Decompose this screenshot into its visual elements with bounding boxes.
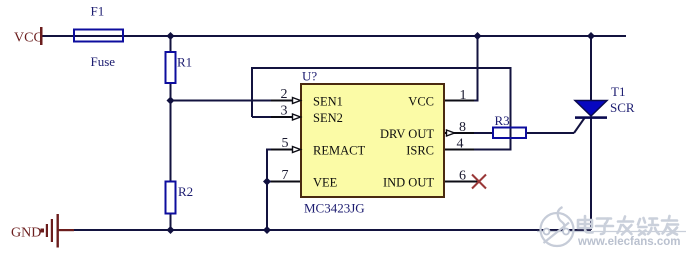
svg-text:8: 8: [459, 120, 466, 135]
svg-text:ISRC: ISRC: [406, 144, 434, 158]
svg-text:SEN1: SEN1: [313, 95, 343, 109]
svg-text:VCC: VCC: [14, 31, 43, 46]
svg-text:Fuse: Fuse: [91, 54, 116, 69]
svg-text:SCR: SCR: [610, 100, 635, 115]
svg-text:F1: F1: [91, 4, 105, 19]
svg-text:3: 3: [281, 104, 288, 119]
svg-text:6: 6: [459, 169, 466, 184]
svg-text:R2: R2: [178, 184, 193, 199]
svg-text:4: 4: [457, 137, 464, 152]
svg-text:SEN2: SEN2: [313, 111, 343, 125]
svg-text:T1: T1: [611, 84, 625, 99]
svg-text:IND OUT: IND OUT: [383, 176, 434, 190]
svg-text:www.elecfans.com: www.elecfans.com: [577, 236, 680, 248]
svg-text:1: 1: [460, 88, 467, 103]
svg-text:MC3423JG: MC3423JG: [304, 201, 365, 216]
svg-text:REMACT: REMACT: [313, 144, 365, 158]
svg-text:7: 7: [282, 168, 289, 183]
svg-text:2: 2: [281, 87, 288, 102]
svg-text:U?: U?: [302, 69, 317, 84]
svg-text:DRV OUT: DRV OUT: [380, 127, 434, 141]
svg-text:5: 5: [282, 136, 289, 151]
svg-text:R3: R3: [495, 113, 510, 128]
svg-text:R1: R1: [177, 55, 192, 70]
svg-text:VEE: VEE: [313, 176, 338, 190]
svg-text:VCC: VCC: [408, 95, 434, 109]
svg-text:GND: GND: [11, 226, 41, 241]
